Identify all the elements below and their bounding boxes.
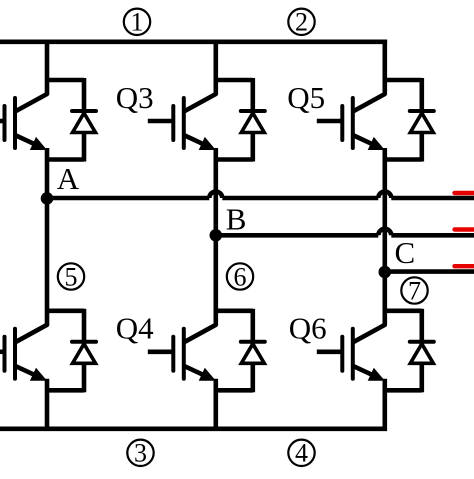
transistor Q6 (IGBT) gate bar [340,337,344,371]
wire: left leg midpoint (Q1 emitter to Q2 collector through node A, net 5) [45,148,50,325]
wire: Q3 collector from top bus [214,42,219,94]
transistor Q1 (IGBT, label cropped) body bar [13,98,17,148]
diode D2 cathode wire [82,309,87,344]
transistor Q5 (IGBT) collector diagonal [354,94,385,111]
wire: middle leg midpoint (Q3 emitter to Q4 collector through node B, net 6) [214,148,219,325]
phase B red output stub [455,227,474,231]
node C junction dot [379,266,392,279]
transistor Q5 (IGBT) emitter arrow [368,137,385,150]
svg-text:Q5: Q5 [287,80,325,115]
transistor Q5 (IGBT) gate bar [340,106,344,140]
svg-text:7: 7 [408,276,421,305]
transistor Q2 (IGBT, label cropped) collector diagonal [16,325,47,342]
transistor Q4 (IGBT) emitter arrow [199,368,216,381]
svg-text:3: 3 [134,439,147,468]
diode D5 anode wire [419,133,424,162]
svg-text:Q4: Q4 [116,311,154,346]
svg-text:Q3: Q3 [116,80,154,115]
node B junction dot [210,229,223,242]
diode D1 anode wire [82,133,87,162]
svg-text:4: 4 [295,439,308,468]
transistor Q1 (IGBT, label cropped) collector diagonal [16,94,47,111]
svg-text:B: B [226,202,247,237]
net label 4 (circled 4) [288,439,314,468]
diode D4 triangle [241,344,264,364]
transistor Q6 (IGBT) body bar [351,329,355,379]
diode D1 cathode bar [72,109,96,113]
transistor Q5 (IGBT) gate lead [317,119,343,124]
diode D4 anode wire [251,363,256,392]
wire: Q1 collector from top bus [45,42,50,94]
node A junction dot [41,192,54,205]
transistor Q3 (IGBT) body bar [182,98,186,148]
diode D2 top connector wire [47,308,84,313]
diode D1 cathode wire [82,78,87,113]
diode D6 cathode wire [419,309,424,344]
transistor Q2 (IGBT, label cropped) gate lead [0,349,5,354]
diode D2 bottom connector wire [47,388,84,393]
transistor Q3 (IGBT) gate bar [171,106,175,140]
diode D6 top connector wire [385,308,422,313]
net label 2 (circled 2) [288,8,314,37]
phase A red output stub [455,191,474,195]
transistor Q1 (IGBT, label cropped) emitter diagonal [16,136,33,144]
net label 3 (circled 3) [127,439,153,468]
diode D1 bottom connector wire [47,157,84,162]
transistor Q6 (IGBT) gate lead [317,349,343,354]
svg-text:A: A [57,161,80,196]
diode D5 top connector wire [385,78,422,83]
diode D3 cathode wire [251,78,256,113]
wire hop: phase B over right leg [378,229,391,236]
diode D4 bottom connector wire [216,388,253,393]
transistor Q3 (IGBT) gate lead [148,119,174,124]
diode D1 top connector wire [47,78,84,83]
wire hop: phase A over right leg [378,192,391,198]
diode D3 top connector wire [216,78,253,83]
wire: phase B output line with hop over leg C [216,233,378,238]
diode D2 anode wire [82,363,87,392]
transistor Q4 (IGBT) gate bar [171,337,175,371]
net label 6 (circled 6) [227,262,253,291]
diode D5 bottom connector wire [385,157,422,162]
transistor Q6 (IGBT) emitter arrow [368,368,385,381]
svg-text:C: C [395,235,416,270]
transistor Q1 (IGBT, label cropped) emitter arrow [30,137,47,150]
wire: Q4 emitter to bottom bus [214,379,219,429]
diode D5 triangle [410,113,433,133]
wire hop: phase A over middle leg [209,192,222,198]
svg-text:1: 1 [131,8,144,37]
diode D5 cathode bar [410,109,434,113]
diode D3 anode wire [251,133,256,162]
transistor Q1 (IGBT, label cropped) gate lead [0,119,5,124]
diode D6 triangle [410,344,433,364]
diode D4 cathode bar [241,340,265,344]
wire: top DC bus (net 1 / 2) [0,39,387,44]
diode D3 bottom connector wire [216,157,253,162]
transistor Q4 (IGBT) collector diagonal [185,325,216,342]
transistor Q3 (IGBT) emitter arrow [199,137,216,150]
svg-text:2: 2 [295,8,308,37]
transistor Q4 (IGBT) gate lead [148,349,174,354]
transistor Q1 (IGBT, label cropped) gate bar [3,106,7,140]
diode D6 bottom connector wire [385,388,422,393]
diode D3 triangle [241,113,264,133]
net label 1 (circled 1) [124,8,150,37]
diode D2 cathode bar [72,340,96,344]
transistor Q4 (IGBT) body bar [182,329,186,379]
transistor Q3 (IGBT) collector diagonal [185,94,216,111]
transistor Q2 (IGBT, label cropped) body bar [13,329,17,379]
phase C red output stub [455,264,474,268]
svg-text:6: 6 [234,262,247,291]
diode D4 cathode wire [251,309,256,344]
transistor Q5 (IGBT) emitter diagonal [354,136,371,144]
diode D6 cathode bar [410,340,434,344]
diode D5 cathode wire [419,78,424,113]
net label 7 (circled 7) [401,276,427,305]
transistor Q5 (IGBT) body bar [351,98,355,148]
diode D1 triangle [73,113,96,133]
transistor Q4 (IGBT) emitter diagonal [185,366,202,374]
diode D4 top connector wire [216,308,253,313]
transistor Q6 (IGBT) collector diagonal [354,325,385,342]
svg-text:5: 5 [65,262,78,291]
wire: phase C output line [385,269,474,274]
wire: right leg midpoint (Q5 emitter to Q6 collector through node C, net 7) [382,148,387,325]
diode D3 cathode bar [241,109,265,113]
diode D2 triangle [73,344,96,364]
wire: top bus corner down to Q5 collector [382,40,387,95]
transistor Q2 (IGBT, label cropped) gate bar [3,337,7,371]
transistor Q3 (IGBT) emitter diagonal [185,136,202,144]
diode D6 anode wire [419,363,424,392]
transistor Q6 (IGBT) emitter diagonal [354,366,371,374]
svg-text:Q6: Q6 [289,311,327,346]
wire: Q2 emitter to bottom bus [45,379,50,429]
net label 5 (circled 5) [58,262,84,291]
wire: bottom DC bus (net 3 / 4) [0,426,387,431]
wire: phase A output line with hops over legs B and C [47,196,209,201]
transistor Q2 (IGBT, label cropped) emitter diagonal [16,366,33,374]
wire: Q6 emitter to bottom bus [382,379,387,427]
transistor Q2 (IGBT, label cropped) emitter arrow [30,368,47,381]
